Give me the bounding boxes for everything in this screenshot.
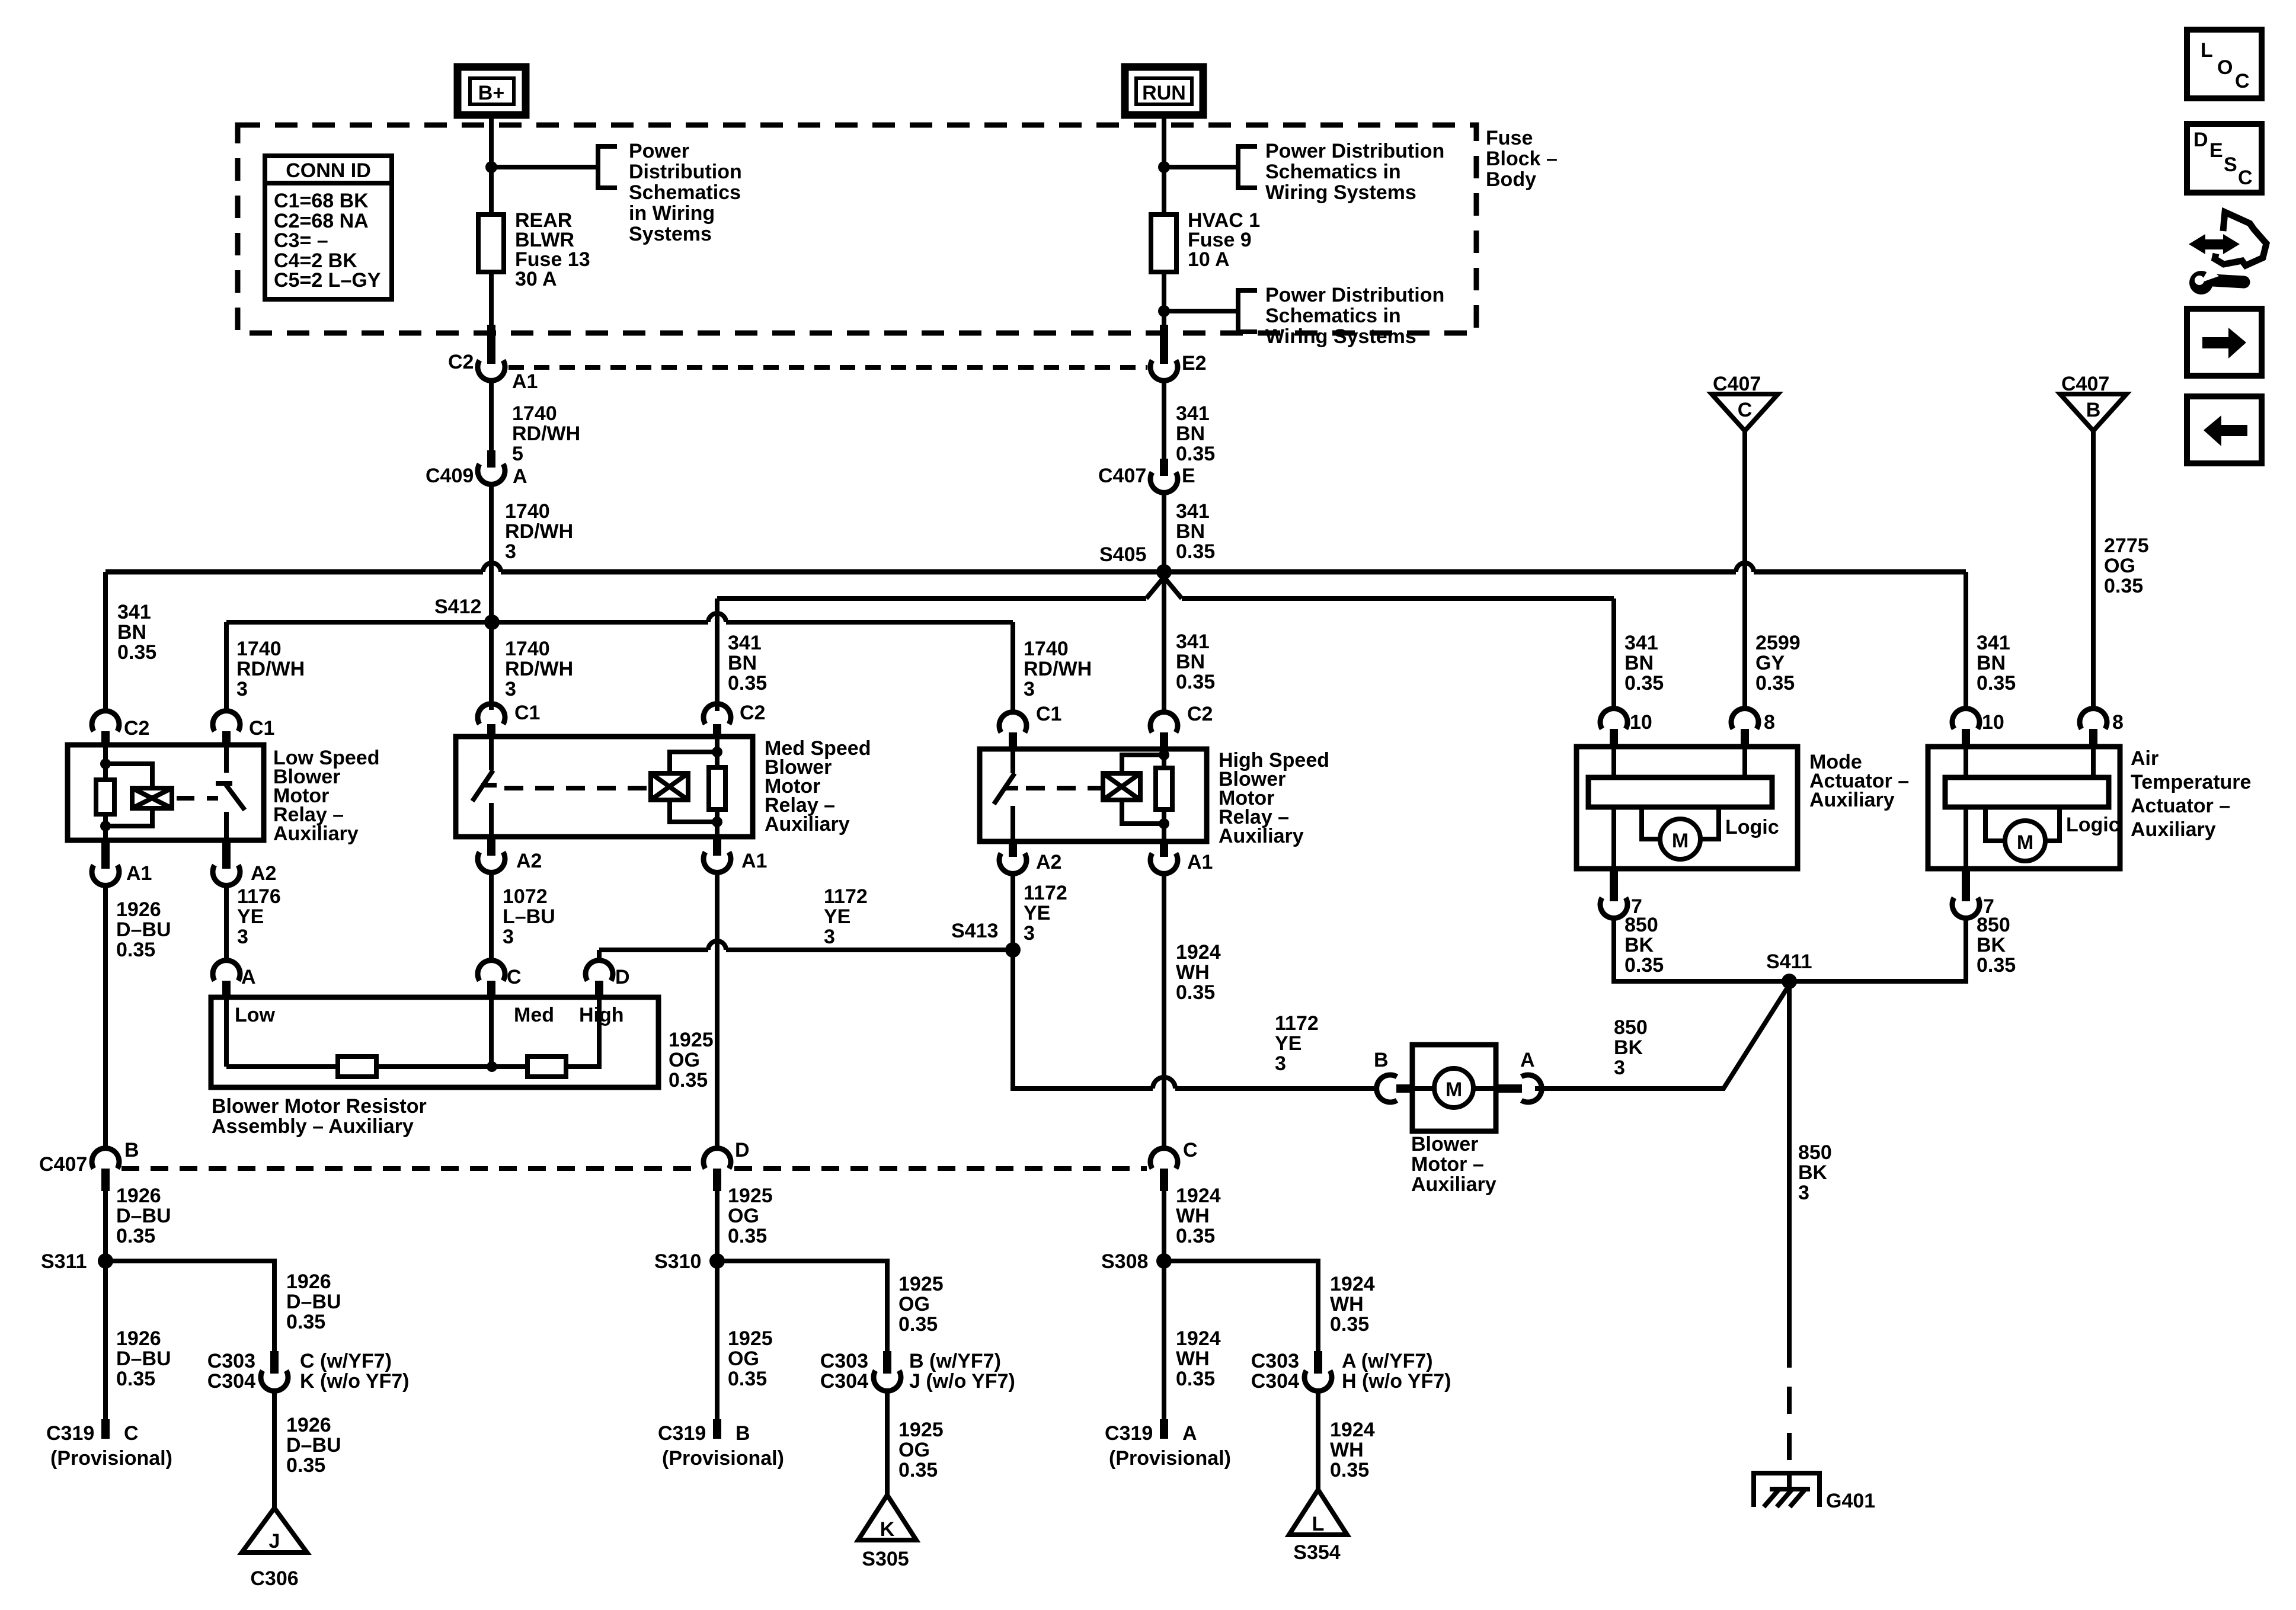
fuse 9 label [1188, 209, 1260, 271]
label 1740 RD/WH 3 high C1 [1024, 638, 1092, 700]
svg-text:S308: S308 [1101, 1250, 1148, 1273]
svg-text:1740: 1740 [1024, 638, 1069, 660]
svg-text:0.35: 0.35 [286, 1454, 325, 1477]
mode pin 8 [1731, 709, 1775, 747]
svg-text:C3= –: C3= – [274, 229, 328, 252]
svg-text:0.35: 0.35 [728, 672, 767, 694]
svg-text:0.35: 0.35 [1176, 671, 1215, 693]
wire air p7 to S411 [1789, 918, 1966, 981]
node on RUN feed upper [1158, 161, 1170, 173]
svg-text:A: A [1520, 1049, 1535, 1071]
node on B+ feed [485, 161, 497, 173]
svg-text:OG: OG [669, 1049, 700, 1071]
svg-text:0.35: 0.35 [1755, 672, 1795, 694]
svg-text:BN: BN [728, 652, 757, 674]
svg-text:0.35: 0.35 [1625, 672, 1664, 694]
svg-text:C304: C304 [820, 1370, 868, 1393]
svg-text:1926: 1926 [116, 1185, 161, 1207]
label 2599 GY 0.35 [1755, 632, 1801, 694]
svg-text:3: 3 [503, 926, 514, 948]
connector C407 pin E [1098, 459, 1195, 492]
label 1925 low [728, 1327, 773, 1390]
med relay C1 pin [478, 702, 540, 737]
fuse HVAC 1 Fuse 9 10 A [1151, 215, 1176, 272]
svg-text:C1=68 BK: C1=68 BK [274, 190, 369, 212]
svg-text:Wiring Systems: Wiring Systems [1265, 325, 1416, 348]
svg-text:S413: S413 [951, 920, 998, 942]
branch S310 to S305 [717, 1261, 887, 1351]
svg-text:5: 5 [512, 443, 523, 465]
label 1924 branch [1330, 1273, 1375, 1336]
svg-text:C407: C407 [1713, 373, 1761, 395]
svg-text:L: L [1312, 1513, 1325, 1535]
wire high A2 to S413 [1011, 873, 1015, 950]
svg-text:A1: A1 [126, 862, 152, 885]
svg-text:1925: 1925 [898, 1273, 944, 1295]
svg-text:C319: C319 [1105, 1422, 1153, 1445]
svg-text:(Provisional): (Provisional) [662, 1447, 784, 1470]
svg-text:Assembly – Auxiliary: Assembly – Auxiliary [212, 1115, 414, 1138]
svg-text:L: L [2201, 39, 2213, 62]
svg-text:J: J [269, 1530, 280, 1553]
svg-text:OG: OG [728, 1347, 759, 1370]
med relay A1 pin [703, 837, 767, 872]
svg-text:0.35: 0.35 [1330, 1459, 1369, 1481]
svg-text:B: B [1374, 1049, 1389, 1071]
connector C407 pin D [703, 1139, 750, 1191]
svg-text:YE: YE [237, 905, 264, 928]
svg-text:Body: Body [1486, 168, 1536, 191]
svg-text:C303: C303 [820, 1350, 868, 1372]
svg-text:C319: C319 [658, 1422, 706, 1445]
fuse block label [1486, 127, 1558, 191]
svg-text:BN: BN [1176, 651, 1205, 673]
label 1926 upper [116, 898, 171, 961]
svg-text:M: M [1672, 830, 1689, 852]
svg-text:WH: WH [1176, 1205, 1210, 1227]
svg-text:C304: C304 [207, 1370, 255, 1393]
svg-text:Schematics in: Schematics in [1265, 161, 1401, 183]
svg-text:RD/WH: RD/WH [505, 520, 573, 543]
icon wrench/diagnostic [2189, 212, 2266, 295]
svg-text:OG: OG [2104, 555, 2135, 577]
svg-text:10 A: 10 A [1188, 248, 1230, 271]
svg-text:3: 3 [505, 678, 516, 700]
svg-text:0.35: 0.35 [669, 1069, 708, 1092]
svg-text:Schematics: Schematics [629, 181, 741, 204]
svg-text:WH: WH [1330, 1293, 1364, 1315]
svg-text:RUN: RUN [1142, 82, 1186, 104]
svg-text:D: D [735, 1139, 750, 1161]
svg-text:Power Distribution: Power Distribution [1265, 284, 1444, 306]
label 1924 low [1176, 1327, 1221, 1390]
svg-text:A (w/YF7): A (w/YF7) [1342, 1350, 1433, 1372]
svg-text:OG: OG [898, 1439, 930, 1461]
branch S308 to S354 [1164, 1261, 1318, 1351]
wire 1924 to S308 [1162, 1191, 1166, 1419]
svg-text:1172: 1172 [824, 885, 868, 908]
svg-text:1072: 1072 [503, 885, 548, 908]
svg-text:A: A [1182, 1422, 1197, 1445]
svg-text:B: B [124, 1139, 139, 1161]
relay med speed blower motor [456, 737, 753, 837]
connector C303/C304 pin C/K [207, 1350, 410, 1393]
blower motor pin A [1496, 1049, 1542, 1102]
svg-text:3: 3 [1024, 922, 1035, 945]
svg-text:A2: A2 [1036, 851, 1061, 873]
connector row C407 dashed (B/D/C) [121, 1166, 700, 1171]
wire branch to power distribution ref (run top) [1164, 165, 1238, 169]
label 341 BN 0.35 run [1176, 402, 1215, 465]
svg-text:G401: G401 [1826, 1490, 1875, 1512]
wire 341 BN to air temp pin10 [1964, 572, 1968, 709]
svg-text:Auxiliary: Auxiliary [273, 822, 359, 845]
wire 1926 to S311 [103, 1191, 108, 1419]
wire fuse13 to C2 [489, 272, 494, 325]
svg-text:C: C [2235, 70, 2250, 92]
svg-text:Auxiliary: Auxiliary [1809, 789, 1895, 811]
svg-text:1740: 1740 [512, 402, 557, 425]
dashed ground wire [1787, 1340, 1792, 1477]
svg-text:WH: WH [1176, 961, 1210, 984]
med relay switch [472, 737, 497, 837]
resistor internals [226, 997, 599, 1077]
ground G401 [1754, 1473, 1875, 1512]
svg-text:WH: WH [1330, 1439, 1364, 1461]
svg-text:0.35: 0.35 [898, 1459, 938, 1481]
svg-text:S310: S310 [654, 1250, 701, 1273]
svg-text:1926: 1926 [286, 1270, 331, 1293]
svg-text:A2: A2 [516, 850, 542, 872]
connector E2 [1150, 325, 1207, 380]
svg-text:BN: BN [1176, 520, 1205, 543]
svg-text:E: E [2209, 139, 2223, 162]
svg-text:S411: S411 [1766, 950, 1812, 973]
svg-text:1740: 1740 [236, 638, 282, 660]
wire 1740 RD/WH 3 (C409 to S412) [489, 485, 494, 622]
label power distribution run top [1265, 140, 1444, 204]
high relay dashed link [1026, 786, 1102, 790]
wire 1740 RD/WH to high relay C1 [1011, 622, 1015, 712]
svg-text:1924: 1924 [1330, 1419, 1375, 1441]
connector C2 pin A1 [448, 325, 538, 393]
svg-text:341: 341 [1977, 632, 2010, 654]
svg-text:850: 850 [1977, 914, 2010, 936]
wire 1925 to S310 [715, 1191, 720, 1419]
label 1072 L-BU 3 [503, 885, 555, 948]
svg-text:S: S [2224, 153, 2237, 176]
wire 850 BK 3 S411 down [1787, 981, 1792, 1340]
svg-text:S412: S412 [434, 596, 481, 618]
svg-text:D–BU: D–BU [286, 1291, 341, 1313]
air temp pin 7 [1952, 869, 1994, 918]
svg-text:D: D [2193, 129, 2208, 151]
svg-text:D–BU: D–BU [116, 1205, 171, 1227]
svg-text:S405: S405 [1099, 543, 1146, 566]
fuse 13 label [515, 209, 590, 290]
svg-text:8: 8 [2112, 711, 2124, 734]
svg-text:(Provisional): (Provisional) [1109, 1447, 1231, 1470]
air temp actuator name [2131, 747, 2251, 841]
svg-text:Power: Power [629, 140, 689, 162]
svg-text:2599: 2599 [1755, 632, 1801, 654]
bracket ref symbol run bottom [1238, 290, 1257, 332]
svg-text:Logic: Logic [1725, 816, 1779, 838]
blower motor pin B [1374, 1049, 1412, 1102]
bracket ref symbol run top [1238, 146, 1257, 188]
svg-text:0.35: 0.35 [1176, 540, 1215, 563]
svg-text:Med: Med [514, 1004, 554, 1026]
svg-text:BN: BN [117, 621, 146, 644]
relay high speed blower motor [980, 749, 1207, 841]
CONN ID table [265, 156, 392, 299]
med relay A2 pin [478, 837, 542, 872]
svg-text:GY: GY [1755, 652, 1785, 674]
svg-text:0.35: 0.35 [1977, 954, 2016, 977]
label 1740 RD/WH 3 med C1 [505, 638, 573, 700]
svg-text:1740: 1740 [505, 638, 550, 660]
svg-text:Systems: Systems [629, 223, 712, 245]
med relay resistor [715, 737, 720, 767]
wire S413 to resistor D [597, 950, 602, 961]
svg-text:Auxiliary: Auxiliary [765, 813, 850, 836]
svg-text:0.35: 0.35 [116, 1225, 155, 1247]
svg-text:C1: C1 [249, 717, 274, 740]
low relay switch [216, 745, 245, 840]
svg-text:1924: 1924 [1176, 1327, 1221, 1350]
terminal C319 A [1105, 1419, 1231, 1470]
svg-text:1925: 1925 [898, 1419, 944, 1441]
high relay resistor [1162, 749, 1166, 768]
svg-text:Auxiliary: Auxiliary [2131, 818, 2216, 841]
svg-text:30 A: 30 A [515, 268, 557, 290]
icon LOC [2187, 30, 2262, 98]
wire 341 BN to low relay C2 [103, 572, 108, 711]
splice S311 [41, 1250, 113, 1273]
splice S412 [434, 596, 500, 630]
label 1172 YE 3 blower [1275, 1012, 1319, 1075]
air temp pin 10 [1952, 709, 2004, 747]
label 1924 mid [1176, 1185, 1221, 1247]
node on RUN feed lower [1158, 305, 1170, 317]
label 1172 YE 3 left [824, 885, 868, 948]
low relay C2 pin [92, 711, 149, 745]
label 341 BN 0.35 low C2 [117, 601, 156, 664]
svg-text:BN: BN [1176, 422, 1205, 445]
svg-text:H (w/o YF7): H (w/o YF7) [1342, 1370, 1451, 1393]
resistor pin A [213, 961, 256, 997]
splice S411 [1766, 950, 1812, 989]
svg-text:D–BU: D–BU [116, 1347, 171, 1370]
label 850 BK 3 blower [1614, 1016, 1648, 1079]
high relay C2 pin [1150, 703, 1213, 749]
wire 1176 YE 3 (low A2 to resistor A) [224, 885, 229, 961]
svg-text:C2: C2 [124, 717, 149, 740]
svg-text:S311: S311 [41, 1250, 87, 1273]
wire RUN into fuse block [1162, 114, 1166, 215]
connector C303/C304 pin A/H [1251, 1350, 1451, 1393]
svg-text:Air: Air [2131, 747, 2159, 770]
svg-text:0.35: 0.35 [117, 641, 156, 664]
svg-text:3: 3 [1275, 1052, 1286, 1075]
svg-text:3: 3 [1024, 678, 1035, 700]
bus 341 BN second row to S405 [717, 577, 1614, 598]
svg-text:OG: OG [898, 1293, 930, 1315]
svg-text:341: 341 [1176, 500, 1210, 523]
icon arrow left [2187, 396, 2262, 463]
svg-text:M: M [2017, 831, 2033, 854]
wire S405 down to high relay C2 [1162, 572, 1166, 710]
low relay A2 pin [213, 840, 276, 885]
svg-text:10: 10 [1982, 711, 2004, 734]
wire 341 BN to mode actuator pin10 [1611, 598, 1616, 709]
wire S412 down to med relay C1 [489, 622, 494, 710]
label 1176 YE 3 [237, 885, 281, 948]
svg-text:Logic: Logic [2066, 814, 2120, 836]
icon arrow right [2187, 309, 2262, 376]
wire 850 BK 3 blower to S411 [1535, 985, 1789, 1089]
terminal C319 B [658, 1419, 784, 1470]
svg-text:L–BU: L–BU [503, 905, 555, 928]
wire 2775 OG from C407 B to air temp pin8 [2091, 431, 2096, 709]
wire 1924 WH high A1 down [1162, 873, 1166, 1148]
svg-text:Schematics in: Schematics in [1265, 305, 1401, 327]
svg-text:Distribution: Distribution [629, 161, 742, 183]
label 1925 mid [728, 1185, 773, 1247]
svg-text:RD/WH: RD/WH [1024, 658, 1092, 680]
svg-text:1172: 1172 [1275, 1012, 1319, 1035]
svg-text:YE: YE [824, 905, 850, 928]
svg-text:0.35: 0.35 [1176, 981, 1215, 1004]
high relay name [1219, 749, 1329, 847]
svg-text:C1: C1 [1036, 703, 1061, 725]
svg-text:0.35: 0.35 [728, 1368, 767, 1390]
svg-text:3: 3 [824, 926, 835, 948]
label 850 BK 3 ground [1798, 1141, 1832, 1204]
svg-text:C306: C306 [250, 1567, 298, 1590]
svg-text:1924: 1924 [1176, 941, 1221, 964]
svg-text:341: 341 [1176, 402, 1210, 425]
bus 1740 RD/WH (S412 row) [226, 620, 708, 625]
svg-text:E: E [1182, 465, 1195, 487]
svg-text:RD/WH: RD/WH [505, 658, 573, 680]
svg-text:YE: YE [1275, 1032, 1302, 1055]
svg-text:Blower: Blower [1411, 1133, 1478, 1156]
svg-text:3: 3 [505, 540, 516, 563]
svg-text:A1: A1 [512, 370, 538, 393]
svg-text:BN: BN [1625, 652, 1654, 674]
air temp pin 8 [2080, 709, 2124, 747]
high relay A1 pin [1150, 841, 1213, 873]
svg-text:0.35: 0.35 [1176, 1225, 1215, 1247]
svg-text:C303: C303 [207, 1350, 255, 1372]
svg-text:B: B [2086, 399, 2101, 421]
label 1926 branch low [286, 1414, 341, 1477]
power symbol RUN [1125, 67, 1203, 115]
svg-text:C2: C2 [1187, 703, 1213, 725]
svg-text:B: B [736, 1422, 750, 1445]
label 1925 upper [669, 1029, 714, 1092]
wire 2599 GY from C407 C to mode pin8 [1742, 431, 1747, 709]
svg-text:Temperature: Temperature [2131, 771, 2251, 793]
svg-text:BN: BN [1977, 652, 2006, 674]
svg-text:(Provisional): (Provisional) [50, 1447, 172, 1470]
mode pin 7 [1600, 869, 1642, 918]
label 341 BN 0.35 to S405 [1176, 500, 1215, 563]
label 341 BN 0.35 mode p10 [1625, 632, 1664, 694]
label 1926 mid [116, 1185, 171, 1247]
label 850 BK 0.35 air [1977, 914, 2016, 977]
air temperature actuator auxiliary [1928, 747, 2120, 869]
svg-text:1172: 1172 [1024, 882, 1067, 904]
svg-text:CONN ID: CONN ID [286, 159, 371, 182]
connector triangle K / S305 [858, 1495, 916, 1570]
label 1740 RD/WH 3 low C1 [236, 638, 305, 700]
svg-text:Block –: Block – [1486, 148, 1558, 170]
svg-text:1925: 1925 [669, 1029, 714, 1051]
svg-text:in Wiring: in Wiring [629, 202, 715, 225]
low relay name [273, 747, 379, 845]
svg-text:C: C [1738, 399, 1753, 421]
svg-text:C407: C407 [1098, 465, 1146, 487]
connector C303/C304 pin B/J [820, 1350, 1015, 1393]
svg-text:YE: YE [1024, 902, 1050, 924]
label 1925 branch low [898, 1419, 944, 1481]
svg-text:C409: C409 [426, 465, 474, 487]
high relay switch [994, 749, 1018, 841]
svg-text:1924: 1924 [1176, 1185, 1221, 1207]
svg-text:850: 850 [1614, 1016, 1648, 1039]
svg-text:341: 341 [1625, 632, 1658, 654]
svg-text:BK: BK [1798, 1161, 1828, 1184]
bus 341 BN (S405 distribution, top) [105, 569, 483, 575]
svg-text:OG: OG [728, 1205, 759, 1227]
bracket ref symbol left [598, 146, 617, 188]
low relay C1 pin [213, 711, 274, 745]
svg-text:C407: C407 [39, 1153, 87, 1176]
high relay C1 pin [999, 703, 1061, 749]
med relay coil [651, 747, 722, 827]
svg-text:341: 341 [1176, 630, 1210, 653]
svg-text:S305: S305 [862, 1548, 909, 1570]
wire fuse9 down [1162, 272, 1166, 325]
wire 1740 RD/WH 5 [489, 381, 494, 450]
svg-text:341: 341 [728, 632, 762, 654]
wire 1740 RD/WH to low relay C1 [224, 622, 229, 711]
label 1740 RD/WH 3 upper [505, 500, 573, 563]
svg-text:0.35: 0.35 [2104, 575, 2143, 597]
svg-text:A1: A1 [1187, 851, 1213, 873]
svg-text:C303: C303 [1251, 1350, 1299, 1372]
svg-text:C: C [124, 1422, 139, 1445]
svg-text:Wiring Systems: Wiring Systems [1265, 181, 1416, 204]
label power distribution run bottom [1265, 284, 1444, 348]
splice S413 [951, 920, 1021, 958]
svg-text:0.35: 0.35 [286, 1311, 325, 1333]
power symbol B+ [458, 67, 526, 115]
svg-text:Power Distribution: Power Distribution [1265, 140, 1444, 162]
label 1926 low [116, 1327, 171, 1390]
svg-text:0.35: 0.35 [116, 1368, 155, 1390]
svg-text:0.35: 0.35 [1330, 1313, 1369, 1336]
wire S413 down to blower [1013, 950, 1153, 1089]
svg-text:0.35: 0.35 [116, 939, 155, 961]
svg-text:8: 8 [1764, 711, 1775, 734]
fuse REAR BLWR Fuse 13 30 A [478, 215, 504, 272]
wire 1926 D-BU low A1 down [103, 885, 108, 1148]
low relay A1 pin [92, 840, 152, 885]
fuse block dashed enclosure [238, 125, 1476, 333]
